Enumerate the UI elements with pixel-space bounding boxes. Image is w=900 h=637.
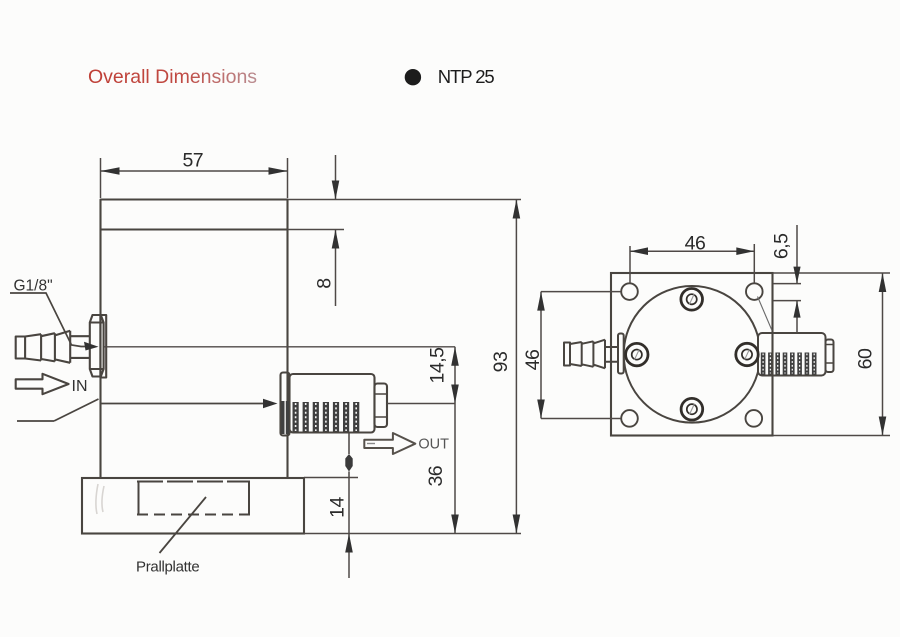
inlet ext handled; out centerline right of muffler	[387, 403, 455, 405]
dim 14 line	[348, 478, 350, 579]
G1/8 leader line	[10, 293, 86, 347]
svg-text:Prallplatte: Prallplatte	[136, 559, 199, 576]
scan smudge in base	[96, 484, 104, 514]
svg-text:IN: IN	[72, 378, 88, 395]
svg-text:57: 57	[182, 150, 203, 172]
corner hole top-left	[621, 283, 638, 300]
46 top arrows	[630, 247, 648, 255]
8 arrows	[332, 181, 340, 200]
93 arrows	[513, 200, 521, 219]
IN flow arrow	[16, 374, 69, 394]
dim 46 left line	[540, 292, 542, 419]
60 arrows	[879, 273, 887, 292]
dim 6,5 line	[796, 225, 798, 333]
46 left arrows	[537, 292, 545, 311]
barb neck	[70, 336, 90, 358]
right view barb fitting	[564, 334, 624, 374]
36 bottom arrow	[451, 515, 459, 534]
svg-text:Overall Dimensions: Overall Dimensions	[88, 66, 257, 88]
hole tangent leader	[758, 297, 773, 331]
dim 93 line	[515, 200, 517, 534]
base bottom extension	[304, 533, 521, 535]
dim 60 line	[882, 273, 884, 436]
barb fitting left view	[16, 315, 107, 378]
barb tooth 1	[25, 334, 41, 360]
svg-text:6,5: 6,5	[771, 233, 793, 259]
arrowheads right view	[537, 247, 886, 435]
14,5 arrows	[451, 347, 459, 366]
svg-text:46: 46	[522, 350, 544, 371]
barb tooth 2	[41, 333, 55, 361]
screw right	[736, 343, 758, 365]
svg-text:OUT: OUT	[418, 437, 449, 453]
corner hole top-right	[746, 283, 763, 300]
dim 46 top line	[630, 250, 754, 252]
svg-text:46: 46	[685, 233, 706, 255]
inlet centerline	[104, 346, 455, 348]
dim 46 top extensions	[630, 244, 754, 284]
muffler end cap	[375, 384, 388, 428]
muffler ribs	[281, 401, 359, 434]
svg-text:93: 93	[490, 352, 512, 373]
svg-text:NTP 25: NTP 25	[438, 66, 495, 87]
mounting circle	[624, 286, 761, 423]
Prallplatte leader	[160, 497, 207, 553]
muffler flange	[281, 373, 290, 436]
svg-text:14,5: 14,5	[427, 347, 449, 384]
body edge through flange	[286, 373, 288, 436]
right muffler ribs	[761, 353, 817, 375]
screw left	[626, 343, 648, 365]
mounting plate	[611, 273, 773, 436]
muffler body	[290, 374, 375, 433]
corner hole bottom-left	[621, 410, 638, 427]
barb tooth 3	[55, 331, 70, 363]
dim 57 extension lines	[101, 158, 288, 198]
right view muffler	[758, 333, 834, 376]
57 arrows	[101, 167, 120, 175]
condensate drop / pointer under muffler	[348, 433, 350, 454]
screw top	[681, 289, 703, 311]
8 extension	[288, 229, 345, 231]
washer behind nut	[100, 315, 106, 378]
svg-text:G1/8": G1/8"	[14, 278, 53, 295]
muffler left view	[281, 373, 388, 436]
top extension to 93	[288, 199, 522, 201]
dim 8 line	[335, 155, 337, 306]
corner hole bottom-right	[746, 410, 763, 427]
dim 57 line	[101, 170, 288, 172]
internal flow line to muffler	[101, 403, 266, 405]
6,5 arrows	[793, 267, 800, 284]
screw bottom	[681, 398, 703, 420]
barb end cap	[16, 337, 25, 359]
svg-text:14: 14	[327, 497, 349, 518]
svg-text:60: 60	[855, 348, 877, 369]
body outline	[101, 200, 288, 479]
dim 46 left extensions	[541, 292, 622, 419]
base plate	[82, 478, 304, 534]
dim 6,5 reference lines	[773, 284, 801, 301]
arrowheads left view dims	[101, 167, 521, 552]
base top extension right	[304, 477, 358, 479]
14 bottom arrow	[345, 534, 353, 553]
diagonal break line bottom left	[17, 399, 99, 421]
dim 14,5 / 36 line	[454, 347, 456, 534]
OUT flow arrow	[364, 433, 415, 454]
bullet dot	[405, 69, 421, 85]
svg-text:36: 36	[425, 466, 447, 487]
base recess (Prallplatte)	[137, 482, 250, 515]
dim 60 extensions	[773, 273, 890, 436]
svg-text:8: 8	[314, 278, 336, 288]
nut	[90, 315, 104, 377]
